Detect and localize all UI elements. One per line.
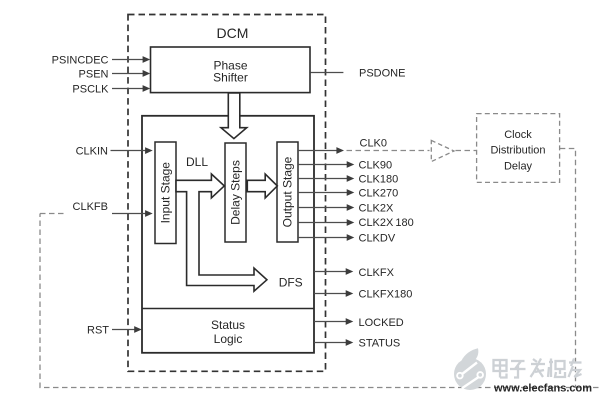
wire CLKDV output xyxy=(298,234,354,241)
buffer triangle (clock buffer) xyxy=(431,140,454,161)
watermark logo icon xyxy=(454,348,486,390)
wire CLKIN input xyxy=(111,147,153,154)
input stage box xyxy=(155,142,176,244)
svg-text:PSEN: PSEN xyxy=(79,68,109,80)
hollow arrow input stage to delay steps with DFS branch xyxy=(176,174,267,291)
clock distribution delay dashed box xyxy=(477,114,560,183)
wire CLK270 output xyxy=(298,189,354,196)
svg-text:CLKFX180: CLKFX180 xyxy=(359,289,413,301)
wire CLK2X output xyxy=(298,204,354,211)
phase shifter box xyxy=(151,47,311,93)
big hollow arrow phase shifter to delay steps xyxy=(221,93,247,139)
svg-text:CLK90: CLK90 xyxy=(359,160,393,172)
svg-text:Status: Status xyxy=(211,318,245,332)
svg-text:www.elecfans.com: www.elecfans.com xyxy=(493,382,592,394)
output stage box xyxy=(277,142,298,242)
status logic label xyxy=(211,318,245,346)
wire PSDONE output xyxy=(310,72,343,74)
wire CLK0 dashed to buffer xyxy=(347,150,430,152)
wire CLKFX output xyxy=(314,268,353,275)
wire CLK0 output xyxy=(298,147,344,154)
DLL/DFS main box xyxy=(142,116,314,353)
svg-text:CLK180: CLK180 xyxy=(359,174,399,186)
hollow arrow delay steps to output stage xyxy=(247,174,277,198)
svg-text:DCM: DCM xyxy=(217,25,249,41)
wire buffer to clock distribution delay xyxy=(456,150,477,152)
wire LOCKED output xyxy=(314,318,353,325)
svg-text:Clock: Clock xyxy=(504,129,532,141)
svg-text:PSCLK: PSCLK xyxy=(72,84,109,96)
svg-text:Logic: Logic xyxy=(214,332,243,346)
svg-text:CLKFB: CLKFB xyxy=(73,201,108,213)
DCM dashed boundary box xyxy=(128,15,326,372)
wire CLK90 output xyxy=(298,161,354,168)
svg-text:Input Stage: Input Stage xyxy=(159,162,173,224)
svg-text:PSDONE: PSDONE xyxy=(359,68,405,80)
phase shifter label xyxy=(213,59,248,85)
wire RST input xyxy=(112,326,142,333)
svg-text:LOCKED: LOCKED xyxy=(359,317,404,329)
svg-text:PSINCDEC: PSINCDEC xyxy=(52,54,109,66)
svg-text:RST: RST xyxy=(87,325,109,337)
svg-text:Delay Steps: Delay Steps xyxy=(229,160,243,225)
svg-text:CLKIN: CLKIN xyxy=(76,146,108,158)
wire CLKFB solid segment xyxy=(112,210,153,217)
svg-text:CLK270: CLK270 xyxy=(359,188,399,200)
svg-text:CLKFX: CLKFX xyxy=(359,267,395,279)
feedback dashed wire bottom run xyxy=(40,214,599,388)
svg-text:CLK2X: CLK2X xyxy=(359,203,395,215)
svg-text:CLK2X180: CLK2X180 xyxy=(359,217,414,229)
wire CLK2X180 output xyxy=(298,219,354,226)
svg-text:CLK0: CLK0 xyxy=(360,138,388,150)
clock distribution delay label xyxy=(490,129,545,172)
wire PSINCDEC input xyxy=(112,56,150,63)
wire PSEN input xyxy=(112,70,150,77)
svg-text:DFS: DFS xyxy=(279,275,303,289)
delay steps box xyxy=(225,143,246,242)
svg-text:Shifter: Shifter xyxy=(213,71,248,85)
svg-text:STATUS: STATUS xyxy=(359,338,401,350)
wire CLKFB dashed feedback entry xyxy=(40,213,67,215)
svg-text:Output Stage: Output Stage xyxy=(281,156,295,227)
wire CLK180 output xyxy=(298,175,354,182)
watermark chinese text (stylized) xyxy=(494,359,582,378)
svg-text:CLKDV: CLKDV xyxy=(359,233,396,245)
wire PSCLK input xyxy=(112,85,150,92)
wire CLKFX180 output xyxy=(314,290,353,297)
wire STATUS output xyxy=(314,339,353,346)
feedback dashed wire from delay box to CLKFB xyxy=(560,149,576,388)
svg-text:Delay: Delay xyxy=(504,160,533,172)
svg-text:Distribution: Distribution xyxy=(490,145,545,157)
status logic box top edge xyxy=(142,308,314,310)
svg-text:DLL: DLL xyxy=(186,155,208,169)
